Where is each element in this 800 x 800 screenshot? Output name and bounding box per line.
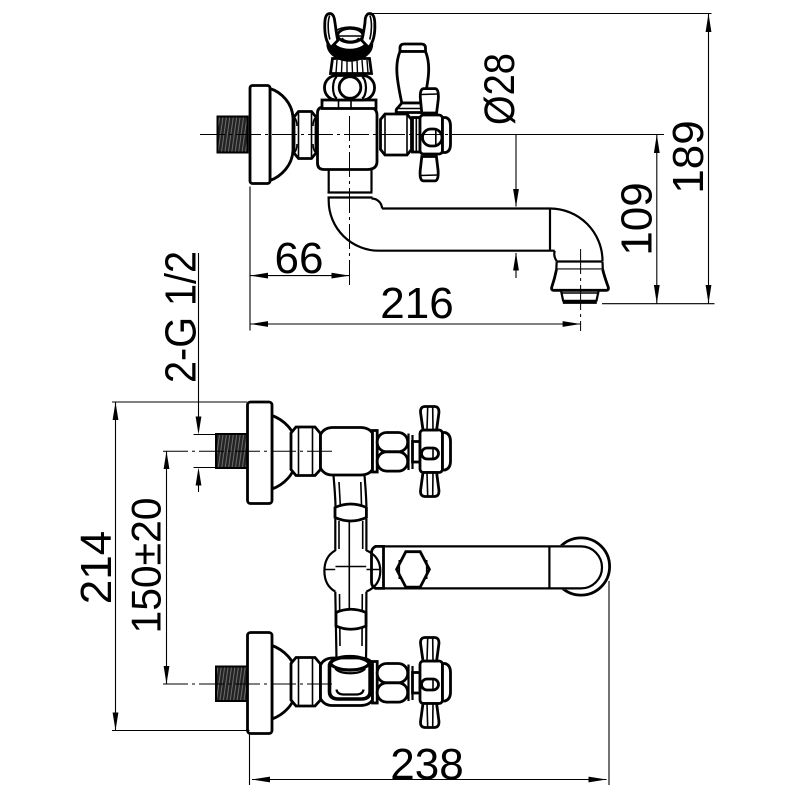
top stem [413,442,421,463]
bonnet rings [413,118,421,153]
hub end cap [443,118,451,153]
top nut cap line [409,434,413,471]
dimension line 66 [250,275,350,277]
bottom nut cap line [409,665,413,702]
aerator tip sides [561,291,599,302]
bottom wing line [420,174,437,177]
centerline bottom eccentric [163,683,332,685]
leader 2-G 1/2 lower [198,472,200,493]
bottom stem [413,673,421,694]
top handle bottom wing [421,473,439,497]
arm over circle mask [551,545,604,589]
arm bracket [372,546,384,588]
spout arm top edge [382,207,550,209]
cross handle bottom wing [420,157,438,181]
top thread (hatched) [216,434,248,468]
tube seam [348,520,350,612]
tube into socket [336,648,366,660]
dimension line 238 [252,779,607,781]
ball bulge right [366,550,380,591]
escutcheon plate [250,86,270,184]
dimension line 150+-20 [166,451,168,684]
spout vertical pipe right edge [370,170,372,192]
ring hole chord [338,35,363,37]
fork flange [322,100,376,109]
oval line [435,130,437,146]
socket inner bottom [337,690,364,695]
fork knurl cone [331,59,372,74]
upper sleeve [335,504,366,521]
ring hole inner arc [342,38,359,41]
right nut facets [385,115,407,155]
spout arm end line [549,209,551,251]
crescent inner cutout [332,28,367,49]
bottom hub cap [443,664,451,702]
top wing line [421,93,438,96]
arm end cap arc [581,546,602,588]
fork left prong [325,14,338,48]
cross handle top wing [420,89,438,113]
DIMS [72,14,715,790]
vertical centerline through aerator [580,249,582,331]
dimension line d28 lower [515,253,517,278]
top handle top wing [421,407,439,431]
extension line 214 bottom [112,730,250,732]
wall nipple thread (hatched) [218,117,248,153]
bottom hub [420,661,443,704]
hex nut chamfer arcs [295,118,315,152]
tube upper [335,519,366,551]
dimension line 109 [656,135,658,304]
ball band right arc [362,77,366,98]
thread ticks [194,435,216,468]
extension line 214 top [112,401,247,403]
ball bulge left [324,550,335,591]
top nut lobes [377,433,408,452]
svg-text:216: 216 [380,279,453,328]
escutcheon bell [270,89,293,181]
spout nose collar [556,262,603,270]
fork crescent ring [328,27,373,60]
spout outer elbow right [550,209,603,262]
vertical centerline through valve and spout [349,116,351,286]
diverter knob body [397,52,429,104]
spout inner fillet right [554,251,556,261]
skirt line [397,108,429,110]
CENTERLINES [163,116,664,684]
dimension line 216 [250,323,581,325]
hex nut [294,112,316,159]
bottom thread (hatched) [216,667,248,702]
bottom handle top wing [421,638,439,662]
top escutcheon plate [248,402,273,504]
neck from top valve [334,476,367,507]
top hub cap [443,433,451,471]
diverter knob skirt [396,103,430,113]
extension line bottom right (189/109) [602,303,715,305]
dimension line 189 [708,14,710,304]
bottom hub oval [422,679,439,690]
svg-text:109: 109 [613,182,662,255]
spout vertical pipe left edge [328,170,330,192]
centerline extension to 109 dim [462,134,664,136]
aerator tip bottom thick [563,300,597,304]
bottom valve flange [373,662,378,704]
top hex facets [299,428,313,476]
hub screw oval [423,129,443,146]
fork right prong [362,14,375,48]
bottom escutcheon plate [248,633,273,734]
BOTTOMVIEW [216,402,610,734]
spout arm bottom edge [379,250,555,252]
extension line 238 right [608,581,610,785]
fork flange lines [339,101,352,109]
fork ball band [325,76,375,101]
right nut [381,114,412,155]
bottom hex facets [299,658,313,706]
bottom handle bottom wing [421,704,439,728]
top valve body [321,428,373,476]
lower sleeve [336,609,366,629]
hex nut facet lines [299,112,312,158]
valve body [318,107,378,170]
spout nose bell [552,270,609,291]
aerator tip top line [562,292,599,294]
svg-text:214: 214 [72,531,121,604]
socket inner arc [336,669,366,674]
top hex nut [291,427,321,476]
spout outer elbow left [329,199,379,251]
spout collar lines [328,193,373,198]
hex side lines [399,560,426,579]
cross handle hub [420,115,443,154]
hex on arm [397,552,430,587]
nose collar sides [556,262,603,270]
dimension line 214 [115,402,117,731]
fork ring hole ellipse [338,28,363,42]
right prong inner line [370,16,372,40]
spout inner fillet [372,199,383,209]
bottom escutcheon bell [272,646,296,720]
knurl lines [336,60,368,73]
left prong inner line [328,16,330,40]
ball lines [325,567,380,570]
centerline top eccentric [163,450,332,452]
tube inner wall lines [339,482,363,646]
arm end line [548,547,550,588]
svg-text:2-G 1/2: 2-G 1/2 [157,251,206,383]
extension line wall (66/216) [249,187,251,331]
centerline horizontal top view [200,134,462,136]
bottom valve body [321,658,373,706]
top valve flange [373,431,378,473]
diverter knob cap [400,44,426,52]
socket cup [330,657,371,699]
dimension line d28 upper [515,135,517,207]
svg-text:66: 66 [275,234,324,283]
tube lower [335,592,366,648]
top hub [420,430,443,473]
socket rim ellipse [331,663,370,670]
bottom hex nut [291,658,321,707]
svg-text:238: 238 [390,740,463,789]
svg-text:Ø28: Ø28 [476,53,524,125]
extension line top (189) [371,13,712,15]
TOPVIEW [218,14,609,302]
extension line 238 left [249,734,251,785]
svg-text:189: 189 [664,120,713,193]
ball band left arc [333,77,337,98]
svg-text:150±20: 150±20 [123,498,170,634]
arm end circle [552,538,609,595]
spout arm (plan) [384,546,582,588]
bottom nut lobes [377,664,408,683]
top hub oval [422,448,439,459]
leader 2-G 1/2 upper [198,253,200,431]
top escutcheon bell [272,416,296,490]
fork ball [339,77,361,99]
